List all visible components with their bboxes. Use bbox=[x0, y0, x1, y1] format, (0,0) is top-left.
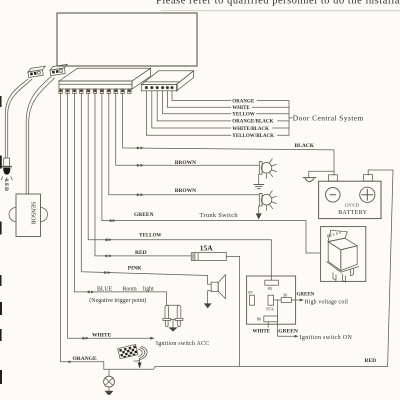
control module U1 bbox=[57, 13, 197, 66]
svg-text:LED: LED bbox=[3, 179, 9, 191]
svg-text:GREEN: GREEN bbox=[134, 212, 154, 218]
arrow on RED bbox=[105, 255, 112, 258]
svg-text:YELLOW: YELLOW bbox=[139, 233, 162, 238]
svg-text:YELLOW: YELLOW bbox=[232, 113, 255, 118]
wire CN2 pin3 to ORANGE/BLACK row bbox=[157, 91, 231, 121]
wire CN2 pin4 to YELLOW row bbox=[163, 91, 231, 114]
wire CN2 pin2 to WHITE/BLACK row bbox=[152, 91, 231, 128]
wire WHITE row to bracket bbox=[252, 106, 289, 108]
wire WHITE (pin2, ignition ACC) bbox=[68, 93, 151, 338]
svg-text:Ignition switch ON: Ignition switch ON bbox=[300, 335, 353, 341]
bracket for door system bbox=[289, 101, 292, 136]
svg-text:BLACK: BLACK bbox=[295, 143, 315, 149]
arrow on BROWN2 bbox=[137, 193, 144, 196]
CN2 pins (6) bbox=[145, 86, 173, 89]
label BLUE Room light bbox=[97, 286, 154, 292]
wire lamp1 to ground bbox=[258, 174, 260, 184]
svg-text:RED: RED bbox=[135, 250, 147, 256]
wire lamp2 to trunk switch arrow bbox=[258, 206, 260, 213]
arrow on YELLOW bbox=[106, 238, 113, 241]
relay K2 socket box bbox=[247, 276, 296, 324]
wire ORANGE/BLACK row to bracket bbox=[278, 120, 290, 122]
svg-text:87A: 87A bbox=[266, 307, 274, 312]
scan mark 3 bbox=[0, 275, 2, 286]
wire branch to chassis ground bbox=[309, 171, 334, 177]
wire BROWN1 (pin8, turn lamp 1) bbox=[116, 93, 260, 165]
room light socket 1 bbox=[163, 305, 171, 326]
svg-text:PINK: PINK bbox=[128, 265, 142, 271]
room light socket 2 bbox=[175, 305, 183, 326]
connector CN1 (main harness) body bbox=[59, 68, 151, 89]
wire J1 to LED (2 leads) bbox=[5, 79, 28, 158]
svg-text:WHITE: WHITE bbox=[253, 330, 271, 335]
svg-text:WHITE: WHITE bbox=[92, 333, 112, 339]
relay pin 87 bbox=[249, 295, 254, 305]
wire bottom RED bus to battery plus bbox=[154, 170, 394, 369]
page rule line bbox=[161, 10, 400, 12]
battery BT1 bbox=[319, 175, 381, 219]
svg-text:30: 30 bbox=[283, 292, 287, 297]
wire GREEN (pin6, trunk switch) bbox=[102, 93, 321, 253]
lamp L1 (turn signal) bbox=[259, 159, 276, 179]
wire YELLOW/BLACK row to bracket bbox=[278, 134, 290, 136]
arrowhead high voltage coil bbox=[300, 299, 304, 302]
relay pin 85 bbox=[265, 280, 279, 285]
wire RED (pin5b, to fuse) bbox=[95, 93, 191, 256]
arrowhead ignition ON bbox=[295, 335, 299, 338]
svg-text:Door Central System: Door Central System bbox=[293, 114, 364, 123]
wire 86 to WHITE stub bbox=[267, 322, 269, 328]
arrow on PINK bbox=[104, 271, 111, 274]
arrow on BLACK bbox=[137, 147, 144, 150]
wire WHITE/BLACK row to bracket bbox=[273, 127, 290, 129]
svg-text:ORANGE/BLACK: ORANGE/BLACK bbox=[232, 120, 273, 125]
scan mark 4 bbox=[0, 302, 2, 315]
ground (bulb) bbox=[105, 391, 114, 395]
wire YELLOW row to bracket bbox=[257, 113, 290, 115]
shock sensor bbox=[9, 194, 48, 237]
svg-text:BATTERY: BATTERY bbox=[338, 210, 368, 216]
svg-text:Room: Room bbox=[123, 286, 138, 292]
relay pin 86 bbox=[264, 316, 278, 322]
wire 30 to high voltage coil bbox=[291, 299, 299, 301]
scan mark 5 bbox=[0, 329, 2, 341]
svg-text:BLUE: BLUE bbox=[97, 286, 113, 292]
arrow on BLUE bbox=[88, 291, 95, 294]
ground (speaker) bbox=[204, 303, 212, 308]
wire CN2 pin5 to WHITE row bbox=[167, 91, 230, 107]
bulb (parking lamp) bbox=[104, 376, 115, 387]
relay module enclosure bbox=[321, 227, 366, 282]
svg-text:Trunk Switch: Trunk Switch bbox=[200, 212, 239, 219]
wire BROWN2 (pin7, turn lamp 2) bbox=[109, 93, 259, 194]
svg-text:(Negative trigger point): (Negative trigger point) bbox=[89, 297, 146, 304]
wire BLACK (pin10) bbox=[123, 93, 334, 175]
svg-text:WHITE/BLACK: WHITE/BLACK bbox=[232, 127, 269, 132]
scan mark 0 bbox=[0, 96, 2, 107]
connector CN2 (door system) body bbox=[141, 71, 193, 91]
svg-text:Please refer to qualified pers: Please refer to qualified personnel to d… bbox=[156, 0, 400, 7]
svg-text:BROWN: BROWN bbox=[175, 188, 196, 194]
svg-text:85: 85 bbox=[268, 286, 272, 291]
wire 86 to ignition ON bbox=[278, 300, 295, 336]
wire CN2 pin1 to YELLOW/BLACK row bbox=[146, 91, 230, 135]
wire ORANGE row to bracket bbox=[257, 100, 289, 102]
arrow on BROWN1 bbox=[137, 164, 144, 167]
svg-text:light: light bbox=[143, 286, 154, 292]
trunk switch contact arrow bbox=[256, 213, 262, 219]
svg-text:WHITE: WHITE bbox=[232, 106, 250, 111]
ground (battery minus) bbox=[303, 178, 316, 182]
wire CN2 pin6 to ORANGE row bbox=[172, 91, 231, 101]
svg-text:86: 86 bbox=[257, 317, 262, 322]
arrow on GREEN bbox=[110, 219, 117, 222]
arrow on ORANGE (points left) bbox=[67, 360, 71, 363]
wire ORANGE (pin1, parking lamp) bbox=[61, 93, 154, 369]
wire PINK (pin4, to siren) bbox=[81, 93, 211, 284]
svg-text:SENSOR: SENSOR bbox=[30, 202, 36, 225]
wire BLUE (pin3, room light) bbox=[74, 93, 179, 305]
svg-text:BROWN: BROWN bbox=[175, 160, 196, 166]
scan mark 2 bbox=[0, 222, 2, 235]
svg-text:High voltage coil: High voltage coil bbox=[304, 299, 348, 305]
speaker SP1 (siren) bbox=[211, 275, 225, 299]
svg-text:GREEN: GREEN bbox=[297, 292, 315, 297]
scan mark 6 bbox=[0, 370, 2, 384]
wire J2 to sensor (2 leads) bbox=[26, 77, 51, 195]
arrowhead to ignition ACC bbox=[150, 337, 154, 340]
wire stub bulb bbox=[108, 369, 110, 376]
relay K1 (3D cube) bbox=[327, 230, 359, 282]
svg-text:RED: RED bbox=[365, 358, 377, 364]
arrow on WHITE bbox=[83, 337, 90, 340]
svg-text:12V/CD: 12V/CD bbox=[344, 202, 359, 207]
wire fuse to bottom bus bbox=[226, 256, 239, 366]
svg-text:YELLOW/BLACK: YELLOW/BLACK bbox=[232, 134, 274, 139]
svg-text:GREEN: GREEN bbox=[278, 329, 298, 335]
svg-text:ORANGE: ORANGE bbox=[232, 99, 255, 104]
svg-text:ORANGE: ORANGE bbox=[73, 356, 97, 362]
key switch junction arrow bbox=[138, 359, 142, 369]
scan mark 1 bbox=[0, 156, 2, 169]
CN1 pin row (11 pins) bbox=[59, 89, 131, 94]
svg-text:Ignition switch ACC: Ignition switch ACC bbox=[156, 341, 209, 347]
svg-text:87: 87 bbox=[248, 290, 253, 295]
ground (lamp1) bbox=[254, 185, 264, 189]
relay pin 30 bbox=[281, 298, 291, 303]
wire speaker to ground bbox=[208, 291, 212, 303]
lamp L2 (turn signal) bbox=[259, 191, 276, 211]
relay pin 87A bbox=[268, 295, 274, 305]
ground (room light) bbox=[168, 327, 177, 331]
connector plug J2 bbox=[50, 64, 69, 75]
ignition key switch symbol bbox=[118, 344, 147, 361]
svg-text:15A: 15A bbox=[200, 244, 214, 253]
wire sockets to ground bbox=[171, 319, 175, 327]
wire bulb to ground bbox=[108, 387, 110, 391]
wire 87A to 30 bbox=[274, 299, 282, 301]
LED indicator bbox=[1, 158, 12, 181]
wire YELLOW (pin5, to relay coil 85) bbox=[88, 93, 271, 280]
svg-text:RELAY: RELAY bbox=[326, 230, 342, 238]
connector plug J1 bbox=[27, 66, 46, 77]
fuse F1 bbox=[191, 253, 226, 261]
